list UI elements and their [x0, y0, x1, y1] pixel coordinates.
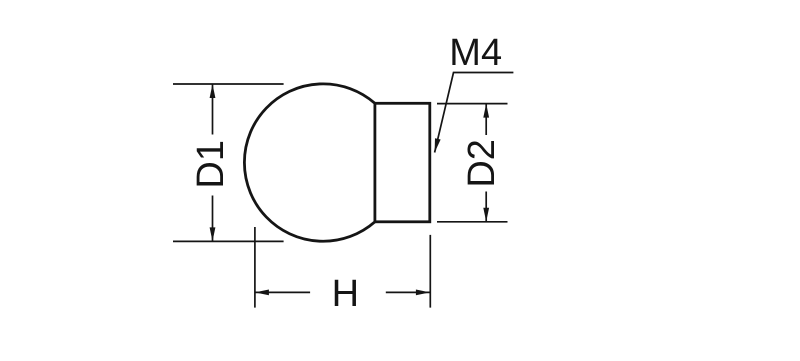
svg-text:M4: M4 [449, 32, 502, 74]
svg-text:D2: D2 [461, 139, 503, 188]
svg-text:H: H [332, 273, 359, 315]
svg-text:D1: D1 [190, 140, 232, 189]
